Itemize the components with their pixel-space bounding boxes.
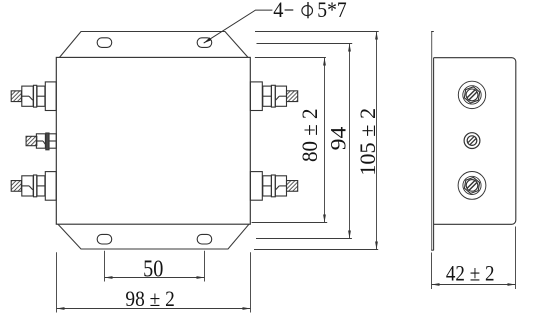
top flange hole right (197, 38, 212, 48)
front view body (56, 57, 250, 224)
terminal T2 middle-left (26, 133, 56, 150)
bottom flange hole right (197, 234, 212, 244)
dimension 94 (256, 44, 352, 239)
dimension 80±2 (252, 58, 328, 223)
side view body (434, 58, 516, 225)
terminal T5 bottom-right (250, 172, 297, 201)
svg-text:98 ± 2: 98 ± 2 (125, 286, 174, 311)
svg-text:50: 50 (143, 256, 163, 283)
terminal T1 top-left (11, 82, 56, 111)
svg-text:42 ± 2: 42 ± 2 (446, 261, 495, 286)
bottom mounting flange (58, 224, 249, 249)
top flange hole left (97, 38, 112, 48)
side terminal bottom (458, 172, 486, 200)
svg-text:80 ± 2: 80 ± 2 (297, 108, 322, 162)
side view flange plate (431, 32, 434, 251)
dimension 42±2 (432, 227, 516, 290)
terminal T3 bottom-left (11, 172, 56, 201)
terminal T4 top-right (250, 82, 297, 111)
leader arrowhead (204, 37, 212, 43)
svg-text:5*7: 5*7 (317, 0, 346, 22)
bottom flange hole left (97, 234, 112, 244)
dimension 50 (105, 251, 205, 282)
label 4-phi5*7 (273, 0, 346, 22)
side terminal middle (464, 133, 480, 149)
side terminal top (458, 81, 485, 108)
svg-text:105 ± 2: 105 ± 2 (355, 108, 380, 176)
top mounting flange (60, 32, 249, 58)
svg-text:94: 94 (325, 127, 350, 151)
dimension 105±2 (254, 32, 379, 250)
dimension 98±2 (57, 252, 251, 312)
leader line 4-phi5*7 (204, 10, 273, 43)
svg-text:4: 4 (273, 0, 283, 22)
